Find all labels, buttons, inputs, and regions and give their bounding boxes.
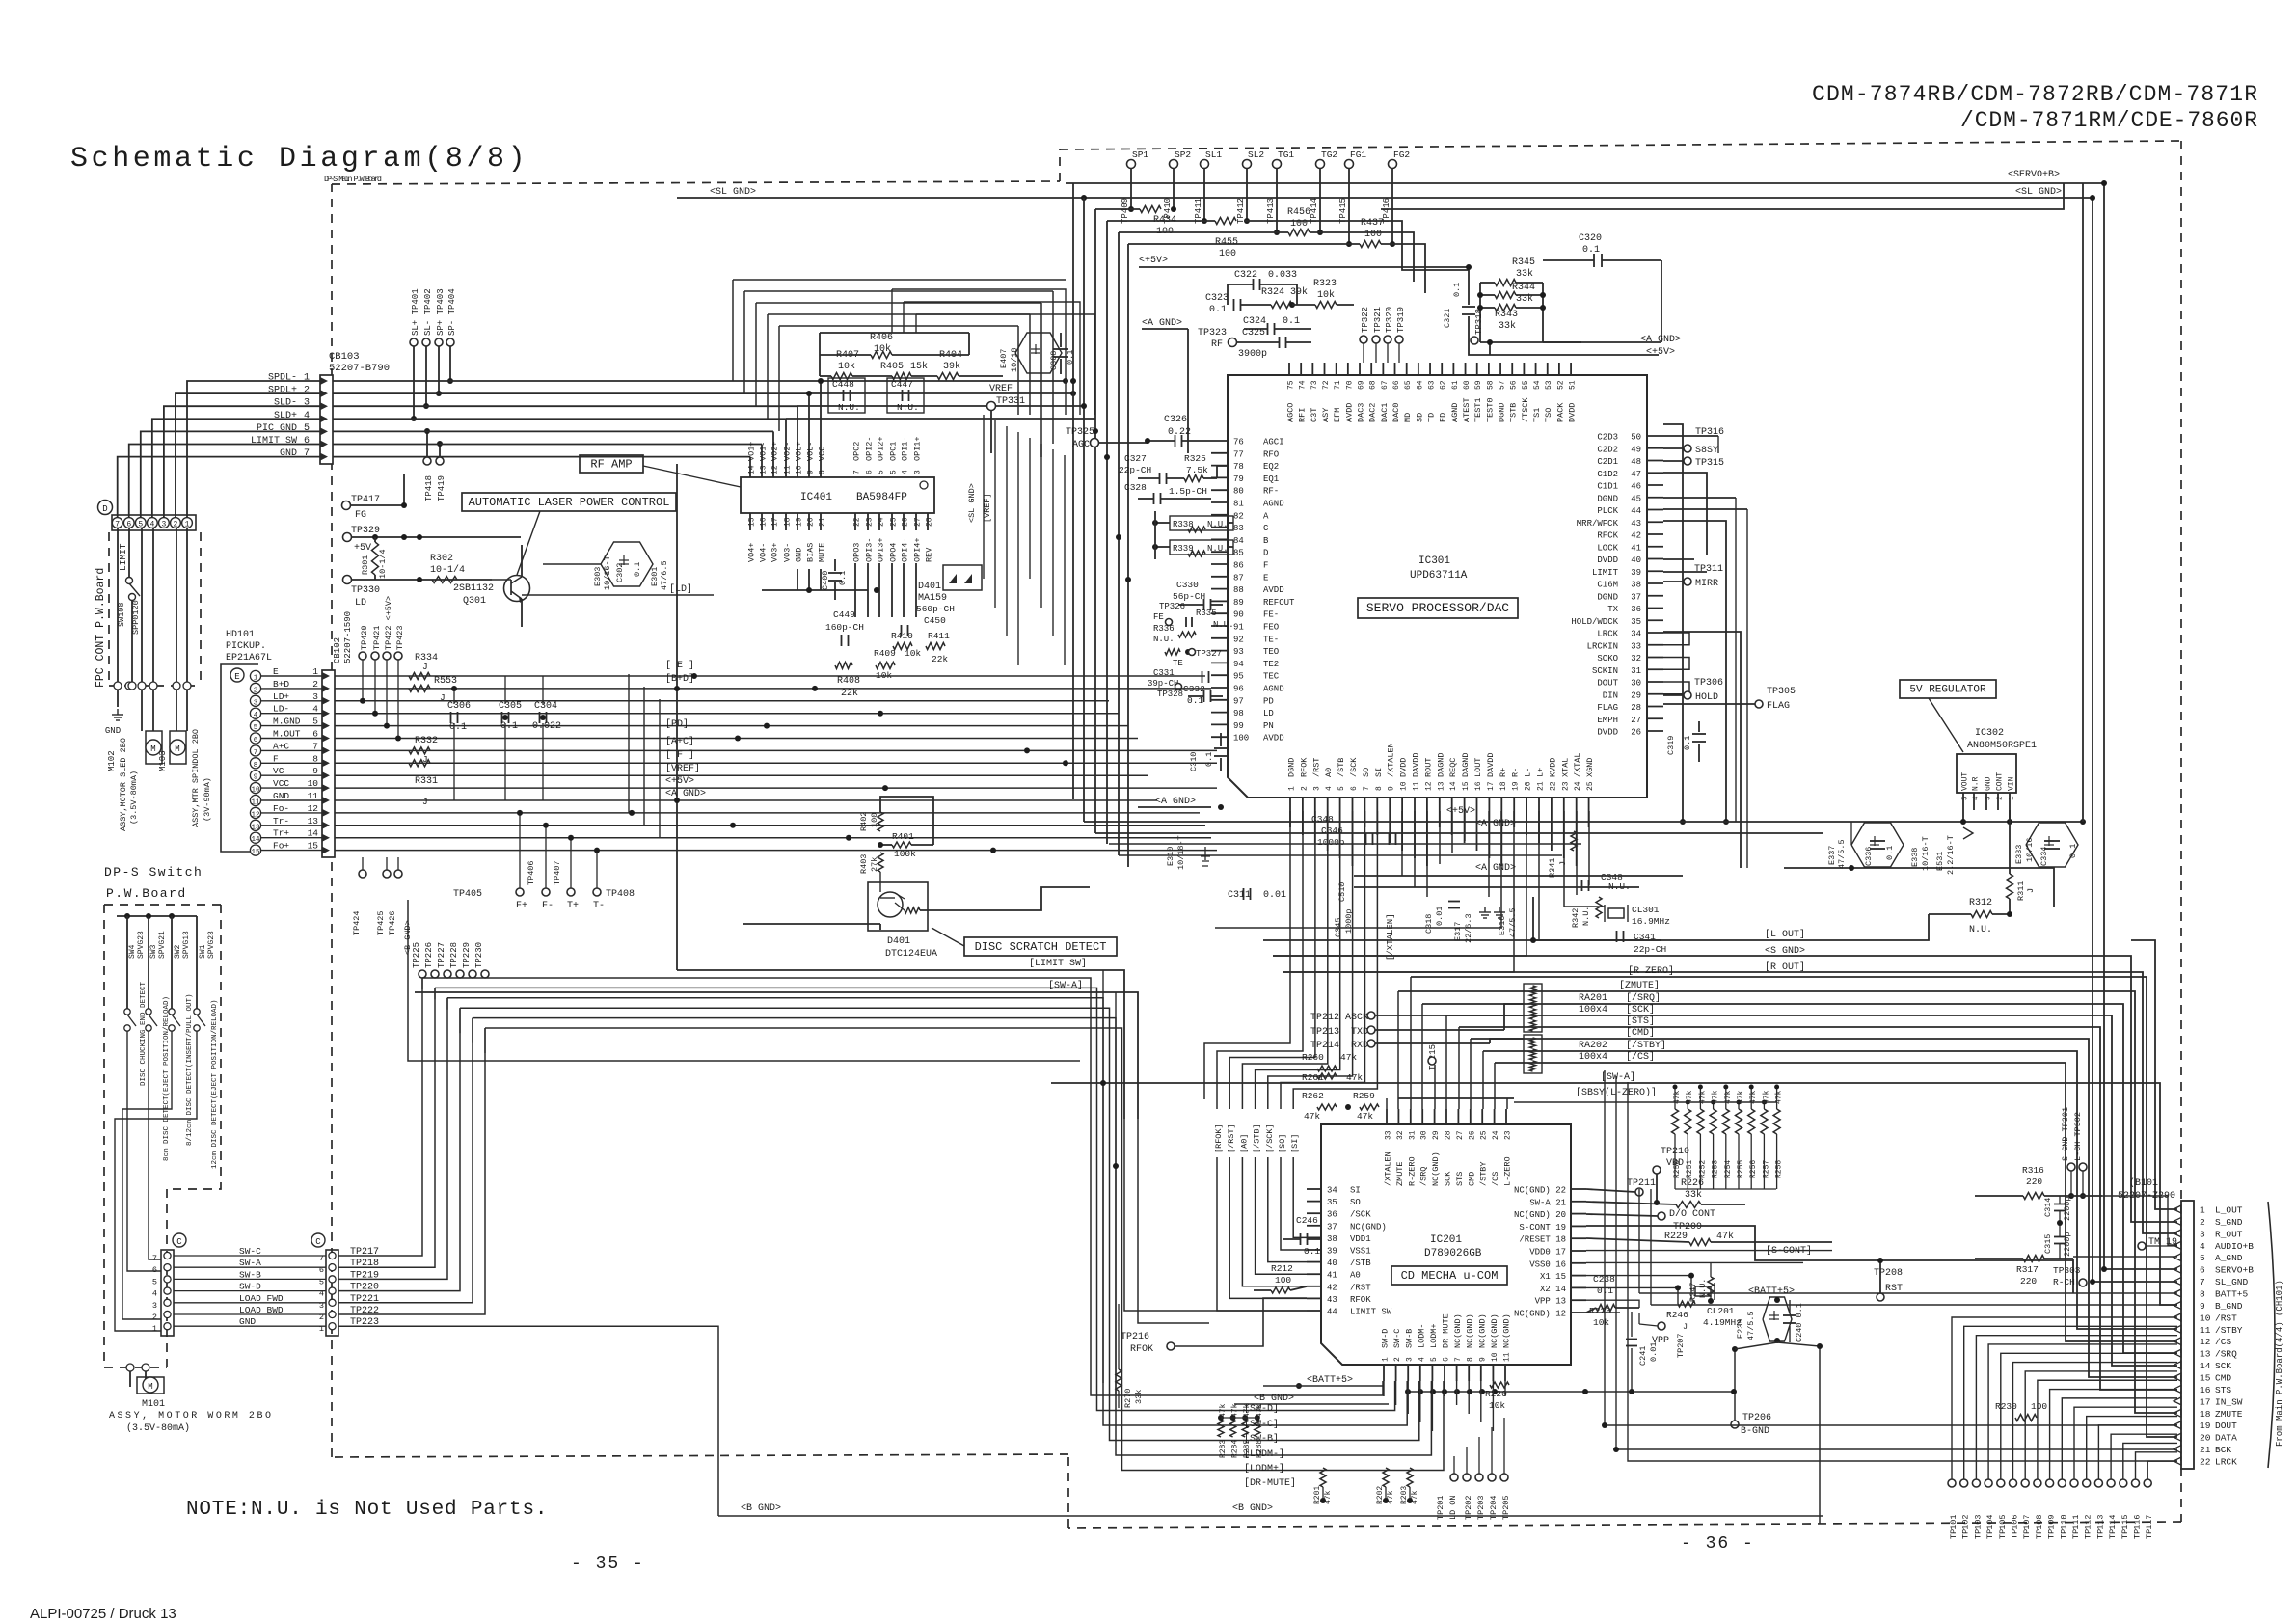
wire switch common rail: [117, 915, 197, 917]
IC301 top pin 70 AVDD: [1347, 363, 1349, 375]
svg-text:DAC2: DAC2: [1368, 403, 1378, 422]
svg-text:9: 9: [254, 774, 258, 782]
svg-text:TP320: TP320: [1385, 307, 1394, 333]
svg-text:C304: C304: [534, 701, 557, 712]
svg-text:10: 10: [796, 465, 804, 474]
svg-text:TP109: TP109: [2047, 1514, 2057, 1539]
svg-text:REFOUT: REFOUT: [1263, 598, 1295, 608]
svg-text:TP311: TP311: [1694, 564, 1723, 575]
svg-text:[B+D]: [B+D]: [665, 673, 694, 685]
svg-text:4: 4: [254, 712, 258, 719]
svg-text:IC401: IC401: [800, 492, 832, 503]
svg-text:F: F: [1263, 561, 1268, 571]
svg-text:/STBY: /STBY: [2215, 1325, 2243, 1336]
svg-text:VO4+: VO4+: [747, 543, 757, 562]
svg-text:0.1: 0.1: [1283, 316, 1300, 327]
svg-text:TP420: TP420: [360, 625, 369, 650]
svg-text:6: 6: [2200, 1265, 2205, 1276]
callout RF AMP: [580, 455, 643, 473]
svg-text:FD: FD: [1439, 413, 1448, 422]
svg-text:16: 16: [1474, 781, 1483, 791]
wire bus center horizontals: [892, 289, 1066, 415]
svg-text:SW3: SW3: [149, 944, 158, 959]
IC201 bottom pin 10 NC(GND): [1492, 1365, 1494, 1381]
svg-text:47k: 47k: [1357, 1111, 1373, 1122]
svg-text:3: 3: [254, 699, 258, 707]
svg-text:CB103: CB103: [329, 351, 360, 363]
svg-text:AVDD: AVDD: [1263, 585, 1284, 595]
svg-text:TEO: TEO: [1263, 647, 1279, 657]
wire lower-left long horizontals under pickup: [408, 900, 752, 1061]
svg-text:R553: R553: [434, 676, 457, 687]
svg-text:12: 12: [2200, 1337, 2211, 1347]
svg-text:9: 9: [2200, 1301, 2205, 1312]
svg-text:TP228: TP228: [449, 942, 459, 968]
IC201 left pin 34 SI: [1307, 1188, 1321, 1190]
svg-text:C510: C510: [1337, 882, 1347, 902]
svg-text:IC302: IC302: [1975, 728, 2004, 739]
capacitor E333 10/16 + C334 0.1: [2026, 823, 2078, 867]
svg-text:CONT: CONT: [1996, 772, 2005, 791]
svg-text:9: 9: [1388, 786, 1396, 791]
svg-text:/XTALEN: /XTALEN: [1384, 1151, 1393, 1186]
svg-text:N.U.: N.U.: [1207, 520, 1229, 529]
svg-text:21: 21: [819, 517, 827, 527]
wires under-IC301 A GND rails: [1109, 843, 1581, 845]
svg-text:X1 15: X1 15: [1540, 1272, 1566, 1282]
svg-text:3: 3: [152, 1301, 157, 1311]
svg-text:E333: E333: [2014, 845, 2024, 864]
svg-text:27: 27: [1631, 716, 1641, 725]
svg-text:ALPI-00725 / Druck 13: ALPI-00725 / Druck 13: [30, 1606, 176, 1622]
svg-text:37: 37: [1327, 1222, 1337, 1232]
svg-text:SP1: SP1: [1132, 149, 1148, 160]
svg-text:[/XTALEN]: [/XTALEN]: [1386, 913, 1395, 961]
wire TP113 to CB101: [2098, 1425, 2177, 1479]
IC301 bottom pin 22 KVDD: [1551, 798, 1553, 811]
svg-text:N.U.: N.U.: [1207, 544, 1229, 554]
svg-text:[A+C]: [A+C]: [665, 736, 694, 747]
svg-text:N.U.: N.U.: [1581, 907, 1591, 926]
svg-text:TP413: TP413: [1266, 198, 1276, 224]
svg-text:TP424: TP424: [352, 910, 362, 935]
wires A GND / +5V mid rails: [1187, 329, 1189, 453]
svg-text:ATEST: ATEST: [1462, 397, 1472, 422]
svg-text:C1D2: C1D2: [1597, 470, 1618, 479]
svg-text:OPI3+: OPI3+: [877, 537, 886, 562]
wire SBSY row extension: [1514, 1101, 1776, 1103]
svg-text:R_OUT: R_OUT: [2215, 1229, 2243, 1239]
svg-text:93: 93: [1233, 647, 1244, 657]
svg-text:BATT+5: BATT+5: [2215, 1289, 2249, 1300]
svg-text:<A GND>: <A GND>: [1155, 797, 1196, 807]
svg-text:RF-: RF-: [1263, 487, 1279, 497]
IC301 right pin 27 EMPH: [1647, 717, 1663, 719]
capacitor E337 47/5.5 + C336 0.1: [1851, 823, 1904, 867]
svg-text:1: 1: [152, 1324, 157, 1334]
svg-text:RF AMP: RF AMP: [590, 457, 632, 471]
svg-text:OPO3: OPO3: [852, 543, 862, 562]
svg-text:11: 11: [784, 465, 793, 474]
svg-text:22k: 22k: [932, 654, 948, 664]
svg-text:C16M: C16M: [1597, 581, 1618, 590]
svg-text:R247: R247: [1688, 1283, 1698, 1302]
CB101 pin 22 LRCK: [2174, 1457, 2181, 1465]
svg-text:- 35 -: - 35 -: [571, 1555, 645, 1574]
svg-text:<A GND>: <A GND>: [665, 789, 706, 799]
wires IC301 bottom drops: [1289, 811, 1291, 827]
svg-text:MRR/WFCK: MRR/WFCK: [1577, 519, 1619, 528]
svg-text:DP-S Switch: DP-S Switch: [104, 865, 203, 880]
svg-text:19: 19: [796, 517, 804, 527]
svg-text:VO2+: VO2+: [770, 442, 780, 461]
svg-text:31: 31: [1408, 1130, 1417, 1140]
IC301 bottom pin 21 L+: [1538, 798, 1540, 811]
wires top nest horizontals: [1072, 183, 1074, 799]
wire bus center verticals: [983, 415, 985, 579]
svg-text:82: 82: [1233, 511, 1244, 521]
svg-text:RFOK: RFOK: [1130, 1344, 1153, 1355]
IC201 left pin 42 /RST: [1307, 1286, 1321, 1287]
svg-text:0.1: 0.1: [500, 721, 518, 732]
svg-text:2: 2: [254, 687, 258, 694]
IC301 top pin 71 EFM: [1336, 363, 1337, 375]
svg-text:[PD]: [PD]: [665, 718, 689, 730]
resistor R257 47k vertical: [1761, 1109, 1768, 1134]
svg-text:20: 20: [2200, 1433, 2211, 1444]
svg-text:35: 35: [1327, 1198, 1337, 1207]
svg-text:/STB: /STB: [1337, 758, 1346, 777]
IC201 left pin 35 SO: [1307, 1201, 1321, 1203]
IC IC301 UPD63711A servo processor/DAC: [1228, 375, 1647, 798]
svg-text:FE: FE: [1153, 612, 1164, 622]
IC301 bottom pin 5 /STB: [1339, 798, 1341, 811]
junction dots on trunk crossings: [1070, 378, 1076, 384]
svg-text:0.1: 0.1: [1683, 736, 1692, 750]
svg-text:L_OUT: L_OUT: [2215, 1205, 2243, 1216]
IC301 right pin 31 SCKIN: [1647, 668, 1663, 670]
svg-text:83: 83: [1233, 524, 1244, 533]
svg-text:47: 47: [1631, 470, 1641, 479]
svg-text:[ E ]: [ E ]: [665, 660, 694, 671]
IC301 right pin 29 DIN: [1647, 693, 1663, 695]
motor M103 ASSY MTR SPINDOL 2BO: [170, 731, 186, 764]
svg-text:C2D1: C2D1: [1597, 457, 1618, 467]
svg-text:79: 79: [1233, 474, 1244, 484]
svg-text:OPI3-: OPI3-: [865, 537, 875, 562]
IC301 top pin 75 AGCO: [1288, 363, 1290, 375]
svg-text:15: 15: [2200, 1373, 2211, 1384]
svg-text:M103: M103: [158, 750, 168, 771]
IC301 top pin 65 MD: [1406, 363, 1408, 375]
svg-text:SI: SI: [1350, 1186, 1361, 1196]
svg-text:10: 10: [1491, 1352, 1499, 1362]
svg-text:TP227: TP227: [437, 942, 446, 968]
svg-text:11: 11: [1413, 781, 1421, 791]
IC201 right pin X2 14: [1571, 1286, 1586, 1288]
resistor R301 10-1/4: [374, 537, 376, 542]
svg-text:/RESET 18: /RESET 18: [1519, 1235, 1566, 1245]
FPC pin circle 7: [112, 518, 122, 528]
IC301 bottom pin 14 REQC: [1451, 798, 1453, 811]
svg-text:VIN: VIN: [2008, 776, 2016, 791]
svg-text:AN80M50RSPE1: AN80M50RSPE1: [1967, 741, 2037, 751]
svg-text:560p-CH: 560p-CH: [916, 604, 955, 614]
svg-text:L-CH TP302: L-CH TP302: [2073, 1112, 2083, 1161]
pickup pin 3 LD+: [250, 695, 260, 706]
svg-text:R332: R332: [415, 736, 438, 746]
svg-text:6: 6: [152, 1265, 157, 1275]
svg-text:TP216: TP216: [1121, 1332, 1149, 1342]
svg-text:TP305: TP305: [1767, 687, 1796, 697]
wire long vertical center: [676, 464, 678, 970]
resistor R311 J: [2007, 874, 2013, 899]
svg-text:<BATT+5>: <BATT+5>: [1748, 1286, 1795, 1297]
IC301 right pin loop stubs LRCK-DIN: [1663, 633, 1689, 645]
svg-text:17: 17: [2200, 1396, 2210, 1407]
svg-text:33k: 33k: [1685, 1189, 1702, 1201]
svg-text:[/RST]: [/RST]: [1227, 1123, 1236, 1153]
svg-text:[RFOK]: [RFOK]: [1214, 1123, 1224, 1153]
svg-text:63: 63: [1428, 380, 1437, 390]
svg-text:VOL-: VOL-: [806, 442, 816, 461]
svg-text:0.022: 0.022: [532, 721, 561, 732]
svg-text:R316: R316: [2022, 1165, 2044, 1176]
capacitor C400 0.1: [828, 572, 842, 574]
svg-text:S-GND TP301: S-GND TP301: [2061, 1107, 2070, 1161]
svg-text:AUTOMATIC LASER POWER CONTROL: AUTOMATIC LASER POWER CONTROL: [469, 496, 670, 509]
svg-text:C: C: [176, 1237, 182, 1247]
svg-text:TP107: TP107: [2022, 1514, 2032, 1539]
resistor R456 100: [1215, 218, 1236, 225]
svg-text:ZMUTE: ZMUTE: [1395, 1161, 1405, 1186]
svg-text:M: M: [175, 744, 179, 754]
svg-text:CMD: CMD: [1467, 1172, 1476, 1186]
svg-text:TP419: TP419: [437, 475, 446, 501]
svg-text:Schematic Diagram(8/8): Schematic Diagram(8/8): [70, 143, 528, 176]
svg-text:/SCK: /SCK: [1350, 1210, 1371, 1220]
svg-text:0.1: 0.1: [449, 722, 467, 733]
svg-text:/RST: /RST: [2215, 1313, 2237, 1323]
IC201 top pin 33 /XTALEN: [1386, 1109, 1388, 1124]
wire TP105 to CB101: [2001, 1353, 2177, 1479]
svg-text:2: 2: [152, 1313, 157, 1322]
svg-text:22p-CH: 22p-CH: [1634, 944, 1666, 955]
wires digital audio nets to CB101 pins 19-22: [1605, 1070, 2177, 1425]
svg-text:47k: 47k: [1304, 1111, 1320, 1122]
svg-text:27: 27: [914, 517, 923, 527]
svg-text:3: 3: [1312, 786, 1321, 791]
svg-text:C327: C327: [1124, 453, 1147, 464]
svg-text:(3V-90mA): (3V-90mA): [203, 777, 212, 822]
svg-text:VSS1: VSS1: [1350, 1247, 1371, 1257]
wires pickup rows to the right: [335, 675, 1205, 677]
svg-text:R283: R283: [1219, 1440, 1228, 1458]
svg-text:24: 24: [878, 517, 886, 527]
IC201 left pin 37 NC(GND): [1307, 1225, 1321, 1227]
IC301 left pin 77 RFO: [1211, 452, 1228, 454]
IC301 top pin 62 FD: [1441, 363, 1443, 375]
svg-text:AVDD: AVDD: [1344, 403, 1354, 422]
svg-text:LOUT: LOUT: [1473, 758, 1483, 777]
svg-text:3900p: 3900p: [1238, 349, 1267, 360]
svg-text:BA5984FP: BA5984FP: [856, 492, 907, 503]
svg-text:L+: L+: [1536, 768, 1546, 777]
svg-text:25: 25: [890, 517, 899, 527]
svg-text:SL_GND: SL_GND: [2215, 1277, 2249, 1287]
resistor R255 47k vertical: [1736, 1109, 1742, 1134]
resistor R250 47k vertical: [1672, 1109, 1679, 1134]
IC301 bottom pin 25 XGND: [1588, 798, 1590, 811]
svg-text:R+: R+: [1499, 768, 1508, 777]
svg-text:TP323: TP323: [1198, 328, 1227, 338]
wire limit sw to IC201: [1124, 1119, 1307, 1311]
wire TP117 to CB101: [2147, 1461, 2177, 1479]
svg-text:0.1: 0.1: [2068, 844, 2078, 858]
svg-text:LIMIT: LIMIT: [118, 543, 128, 571]
svg-text:C325: C325: [1242, 328, 1265, 338]
svg-text:TP407: TP407: [553, 860, 562, 885]
svg-text:OPI4-: OPI4-: [901, 537, 910, 562]
svg-text:0.1: 0.1: [1304, 1246, 1320, 1257]
svg-text:[LODM-]: [LODM-]: [1244, 1448, 1284, 1460]
svg-text:RA202: RA202: [1579, 1041, 1607, 1051]
svg-text:22: 22: [2200, 1457, 2211, 1468]
IC201 right pin VDD0 17: [1571, 1250, 1586, 1252]
svg-text:[/STBY]: [/STBY]: [1626, 1040, 1666, 1051]
IC301 bottom pin 7 SO: [1364, 798, 1365, 811]
svg-text:(B101: (B101: [2129, 1177, 2158, 1189]
IC301 right pin 39 LIMIT: [1647, 570, 1663, 572]
svg-text:SL1: SL1: [1205, 149, 1222, 160]
svg-text:7: 7: [1363, 786, 1371, 791]
IC301 bottom pin 6 /SCK: [1352, 798, 1354, 811]
svg-text:TP111: TP111: [2071, 1514, 2081, 1539]
svg-text:A0: A0: [1350, 1271, 1361, 1281]
svg-text:12: 12: [771, 465, 780, 474]
svg-text:10/18-T: 10/18-T: [1176, 835, 1186, 870]
svg-text:TP327: TP327: [1196, 649, 1222, 659]
IC301 right pin 35 HOLD/WDCK: [1647, 619, 1663, 621]
IC201 right pin VPP 13: [1571, 1299, 1586, 1301]
svg-text:64: 64: [1416, 380, 1424, 390]
capacitor C302 0.1 / E303 / E301 cluster: [601, 542, 653, 586]
svg-text:TP226: TP226: [424, 942, 434, 968]
wires scratch detect: [920, 887, 1090, 910]
svg-text:TEST0: TEST0: [1485, 397, 1495, 422]
svg-text:TP331: TP331: [996, 396, 1025, 407]
svg-text:50: 50: [1631, 433, 1641, 443]
svg-text:<SL GND>: <SL GND>: [2015, 187, 2062, 198]
svg-text:C319: C319: [1666, 736, 1676, 755]
svg-text:DAGND: DAGND: [1436, 752, 1445, 777]
svg-text:/TSCK: /TSCK: [1521, 397, 1530, 422]
svg-text:E: E: [1263, 573, 1268, 582]
svg-text:14: 14: [1449, 781, 1458, 791]
svg-text:TSO: TSO: [1544, 408, 1553, 422]
wires IC301 DAC pins to crystal band: [1401, 811, 1403, 876]
pickup outline box: [221, 664, 258, 852]
svg-text:VPP: VPP: [1652, 1336, 1669, 1346]
svg-text:HOLD: HOLD: [1695, 692, 1718, 703]
svg-text:L-: L-: [1524, 768, 1533, 777]
svg-text:(3.5V-80mA): (3.5V-80mA): [129, 771, 139, 825]
svg-text:47/5.5: 47/5.5: [1508, 907, 1518, 937]
pickup pin 12 Fo-: [250, 807, 260, 818]
svg-text:62: 62: [1440, 380, 1448, 390]
IC301 left pin 86 F: [1211, 563, 1228, 565]
IC301 bottom pin 11 DAVDD: [1414, 798, 1416, 811]
svg-text:AGND: AGND: [1263, 685, 1284, 694]
svg-text:13: 13: [1437, 781, 1445, 791]
svg-text:[SO]: [SO]: [1278, 1134, 1287, 1153]
svg-text:FLAG: FLAG: [1597, 703, 1618, 713]
svg-text:4: 4: [1325, 786, 1334, 791]
svg-text:<A GND>: <A GND>: [1475, 819, 1516, 829]
svg-text:TP330: TP330: [351, 585, 380, 596]
svg-text:[SW-D]: [SW-D]: [1244, 1403, 1279, 1415]
wire TP114 to CB101: [2111, 1434, 2177, 1479]
wires IC201 top pin risers: [1386, 1098, 1388, 1109]
svg-text:KVDD: KVDD: [1548, 758, 1557, 777]
svg-text:<SL GND>: <SL GND>: [967, 483, 977, 523]
svg-text:TD: TD: [1427, 413, 1437, 422]
svg-text:E239: E239: [1736, 1319, 1745, 1339]
svg-text:PD: PD: [1263, 696, 1274, 706]
svg-text:TP106: TP106: [2011, 1514, 2020, 1539]
FPC pin circle 2: [171, 518, 181, 528]
svg-text:87: 87: [1233, 573, 1244, 582]
svg-text:36: 36: [1631, 605, 1641, 614]
svg-text:7: 7: [254, 749, 258, 757]
svg-text:2: 2: [2200, 1217, 2205, 1228]
svg-text:[SW-B]: [SW-B]: [1244, 1433, 1279, 1445]
svg-text:[SW-C]: [SW-C]: [1244, 1419, 1279, 1430]
svg-text:24: 24: [1492, 1130, 1500, 1140]
svg-text:AGCO: AGCO: [1286, 403, 1296, 422]
svg-text:ROUT: ROUT: [1423, 758, 1433, 777]
IC301 right pin 44 PLCK: [1647, 509, 1663, 511]
svg-text:<+5V>: <+5V>: [1446, 806, 1475, 817]
IC301 bottom pin 13 DAGND: [1439, 798, 1441, 811]
wire B-GND gather rail: [1408, 1391, 1734, 1393]
wire TP111 to CB101: [2074, 1407, 2177, 1479]
connector CB103 52207-B790: [320, 375, 333, 464]
svg-text:NC(GND) 22: NC(GND) 22: [1514, 1186, 1566, 1196]
pickup pin 11 GND: [250, 795, 260, 805]
pickup pin 4 LD-: [250, 708, 260, 718]
svg-text:CB102: CB102: [333, 637, 342, 663]
svg-text:TP326: TP326: [1159, 602, 1185, 611]
svg-text:C320: C320: [1579, 233, 1602, 244]
svg-text:R323: R323: [1313, 279, 1337, 289]
svg-text:OPI2+: OPI2+: [877, 436, 886, 461]
svg-text:94: 94: [1233, 660, 1244, 669]
svg-text:10-1/4: 10-1/4: [430, 564, 465, 576]
svg-text:A: A: [1263, 511, 1269, 521]
IC301 top pin 53 TSO: [1547, 363, 1549, 375]
IC301 right pin 26 DVDD: [1647, 730, 1663, 732]
svg-text:IC201: IC201: [1430, 1234, 1462, 1246]
IC301 left pin 85 D: [1211, 551, 1228, 553]
svg-text:R339: R339: [1173, 544, 1194, 554]
svg-text:N.U.: N.U.: [897, 402, 919, 413]
svg-text:R226: R226: [1681, 1178, 1704, 1189]
svg-text:TP117: TP117: [2145, 1514, 2154, 1539]
wire BIAS/MUTE rail: [762, 589, 868, 591]
IC301 top pin 61 AGND: [1452, 363, 1454, 375]
svg-text:TP208: TP208: [1874, 1268, 1903, 1279]
